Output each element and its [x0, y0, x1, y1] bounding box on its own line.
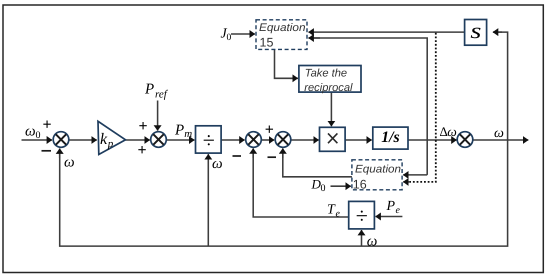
svg-text:16: 16 [353, 177, 367, 191]
svg-text:15: 15 [260, 35, 274, 49]
svg-text:0: 0 [321, 183, 326, 194]
svg-text:+: + [139, 118, 148, 135]
svg-text:m: m [184, 128, 192, 140]
svg-text:ω: ω [212, 156, 223, 172]
svg-text:P: P [174, 123, 184, 139]
svg-text:1/s: 1/s [381, 129, 400, 146]
svg-text:s: s [470, 18, 481, 43]
svg-text:0: 0 [36, 130, 41, 141]
svg-text:P: P [144, 82, 154, 98]
svg-text:Take the: Take the [305, 68, 347, 80]
svg-text:P: P [386, 199, 396, 214]
svg-text:Equation: Equation [355, 164, 401, 176]
svg-text:ω: ω [25, 124, 36, 140]
svg-text:+: + [43, 117, 52, 134]
svg-text:reciprocal: reciprocal [304, 82, 353, 94]
svg-text:k: k [100, 131, 108, 148]
svg-text:ω: ω [494, 126, 504, 141]
svg-text:ω: ω [447, 124, 457, 139]
svg-text:÷: ÷ [356, 203, 368, 228]
svg-text:ω: ω [367, 234, 378, 250]
svg-text:Equation: Equation [259, 22, 306, 34]
svg-text:p: p [107, 138, 114, 150]
svg-text:ω: ω [64, 155, 75, 171]
svg-text:e: e [336, 209, 341, 220]
svg-text:÷: ÷ [203, 128, 215, 153]
svg-text:+: + [138, 142, 147, 159]
svg-text:ref: ref [155, 89, 169, 101]
svg-text:+: + [265, 122, 274, 139]
svg-text:e: e [396, 205, 401, 216]
svg-text:0: 0 [227, 33, 232, 43]
